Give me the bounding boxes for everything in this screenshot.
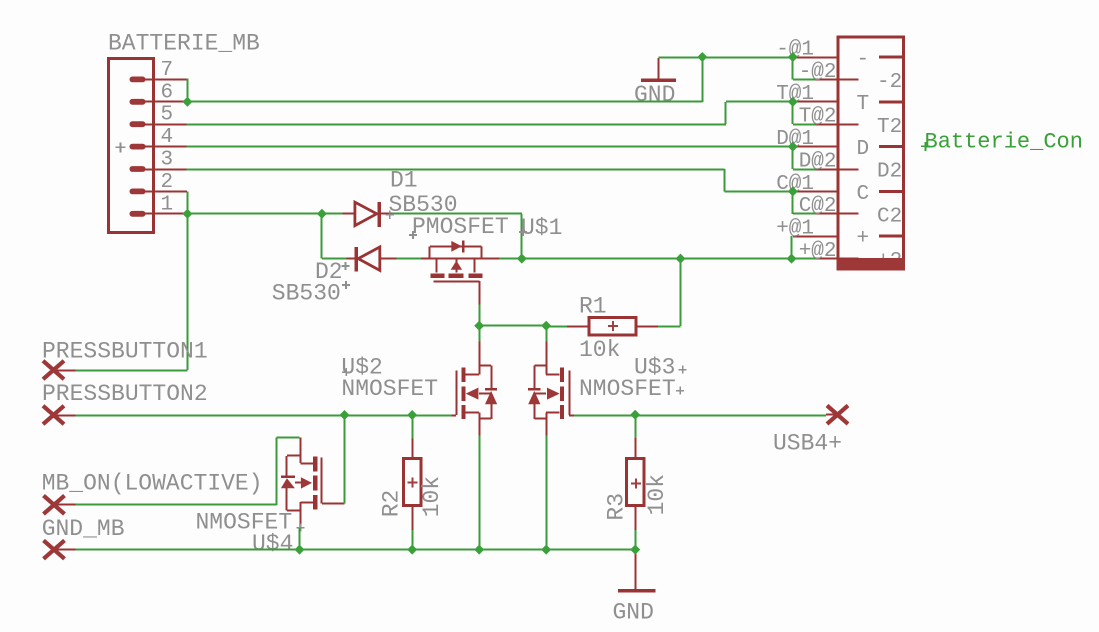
svg-text:NMOSFET: NMOSFET [341,376,438,402]
svg-text:T2: T2 [877,116,902,139]
svg-text:R1: R1 [579,294,607,320]
svg-text:GND_MB: GND_MB [42,516,125,542]
svg-text:5: 5 [161,104,174,127]
svg-text:+: + [857,228,870,251]
svg-text:R2: R2 [379,490,405,518]
svg-text:PRESSBUTTON1: PRESSBUTTON1 [42,339,208,365]
svg-text:+@1: +@1 [776,218,814,241]
svg-text:2: 2 [161,171,174,194]
svg-text:GND: GND [613,599,654,625]
svg-text:10k: 10k [644,474,670,515]
svg-text:D: D [857,138,870,161]
svg-text:+@2: +@2 [799,240,837,263]
svg-text:BATTERIE_MB: BATTERIE_MB [108,31,260,57]
svg-text:C: C [857,183,870,206]
svg-text:R3: R3 [604,493,630,521]
svg-text:10k: 10k [579,337,620,363]
svg-text:-: - [857,48,870,71]
svg-text:NMOSFET: NMOSFET [579,376,676,402]
svg-text:PMOSFET: PMOSFET [412,214,509,240]
svg-text:U$1: U$1 [521,215,562,241]
svg-text:1: 1 [161,193,174,216]
svg-text:D1: D1 [390,168,418,194]
svg-text:C@2: C@2 [799,195,837,218]
svg-text:10k: 10k [419,476,445,517]
svg-text:Batterie_Con: Batterie_Con [925,130,1083,155]
svg-text:C2: C2 [877,205,902,228]
svg-text:-2: -2 [877,71,902,94]
svg-text:USB4+: USB4+ [773,431,842,457]
svg-text:MB_ON(LOWACTIVE): MB_ON(LOWACTIVE) [42,471,263,497]
svg-text:U$4: U$4 [252,531,293,557]
svg-text:T: T [857,93,870,116]
svg-text:4: 4 [161,126,174,149]
svg-text:D2: D2 [877,161,902,184]
svg-text:6: 6 [161,81,174,104]
svg-text:SB530: SB530 [272,281,341,307]
svg-text:3: 3 [161,149,174,172]
svg-text:PRESSBUTTON2: PRESSBUTTON2 [42,381,208,407]
svg-text:7: 7 [161,59,174,82]
svg-text:GND: GND [634,82,675,108]
